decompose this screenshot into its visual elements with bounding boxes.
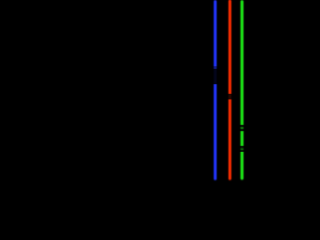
red light streak <box>228 1 231 179</box>
green light streak <box>240 2 243 179</box>
red streak dark notch <box>227 94 234 100</box>
blue streak dim ramp above notch <box>212 66 219 69</box>
green streak notch pair 2 upper <box>239 146 246 149</box>
green streak notch pair 2 lower <box>239 150 246 152</box>
blue streak dark notch <box>212 69 219 84</box>
blue light streak <box>214 2 217 180</box>
green streak notch pair 1 lower <box>239 129 246 132</box>
green streak notch pair 1 dim sliver <box>239 127 246 128</box>
green streak notch pair 2 dim sliver <box>239 149 246 150</box>
green streak notch pair 1 upper <box>239 125 246 128</box>
